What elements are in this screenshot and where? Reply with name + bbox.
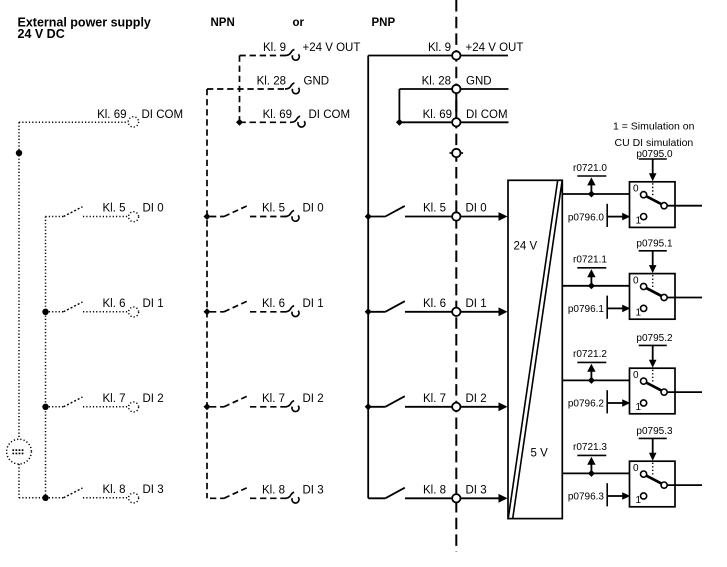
- wire: simulation output DI 1: [667, 297, 702, 299]
- label r0721.3: [573, 442, 607, 453]
- isolation diagonal line 2: [513, 180, 563, 518]
- wire: DI COM dotted to external supply: [19, 121, 128, 123]
- wire: NPN Kl.9 +24V OUT dashed: [240, 55, 286, 57]
- contact 1 DI 2: [641, 400, 647, 406]
- label Kl. 5 (external): [102, 203, 125, 215]
- label p0796.1: [568, 304, 605, 315]
- svg-text:or: or: [293, 17, 305, 29]
- isolator box 24V/5V: [508, 180, 562, 518]
- contact 0 DI 2: [641, 378, 647, 384]
- p0796.2 bar: [606, 390, 608, 413]
- wire: PNP Kl.69 DI COM: [399, 121, 452, 123]
- r0721.2 bar: [577, 361, 606, 363]
- label GND (NPN): [304, 76, 330, 88]
- p0795.3 input arrow: [649, 438, 657, 460]
- label Kl. 5 (PNP): [423, 203, 446, 215]
- label Kl. 8 (NPN): [262, 484, 285, 496]
- label DI COM (PNP): [466, 109, 508, 121]
- simulation switch box DI 1: [630, 274, 676, 320]
- label Kl. 7 (NPN): [262, 393, 285, 405]
- svg-text:GND: GND: [466, 76, 492, 88]
- svg-text:DI 0: DI 0: [466, 203, 487, 215]
- svg-text:DI 0: DI 0: [303, 203, 324, 215]
- label: NPN column header: [211, 17, 235, 29]
- junction: NPN +24V/DI COM: [236, 119, 243, 126]
- terminal Kl.5: [452, 212, 460, 220]
- terminal Kl.9: [452, 51, 460, 59]
- wire: PNP +24V rail vertical: [367, 56, 369, 499]
- contact Kl.8 NPN (socket): [285, 492, 299, 503]
- wire: external switch rail dotted: [45, 217, 47, 498]
- svg-text:0: 0: [633, 370, 639, 381]
- svg-text:Kl. 7: Kl. 7: [423, 393, 446, 405]
- contact Kl.28 NPN (socket): [285, 83, 299, 94]
- output pole DI 3: [661, 482, 667, 488]
- label Kl. 69 (external): [97, 109, 126, 121]
- contact Kl.69 external (dotted circle): [128, 117, 138, 127]
- label p0795.0: [636, 149, 673, 160]
- wire: isolator output DI 0: [562, 193, 629, 195]
- svg-text:NPN: NPN: [211, 17, 235, 29]
- label p0795.1: [636, 239, 673, 250]
- junction on supply vertical: [16, 150, 22, 156]
- svg-text:CU DI simulation: CU DI simulation: [615, 137, 694, 149]
- r0721.3 output arrow: [587, 457, 595, 474]
- svg-text:DI 0: DI 0: [143, 203, 164, 215]
- p0796.3 bar: [606, 483, 608, 506]
- label 0 (switch DI 2): [633, 370, 639, 381]
- PNP switch + wire DI 1 (Kl. 6): [365, 301, 452, 315]
- svg-text:r0721.2: r0721.2: [573, 349, 607, 360]
- contact 1 DI 3: [641, 493, 647, 499]
- svg-text:p0795.1: p0795.1: [636, 239, 673, 250]
- control unit boundary (dash line): [455, 0, 457, 552]
- external switch + wire DI 0 (Kl. 5): [46, 207, 128, 217]
- switch lever DI 1: [646, 288, 661, 296]
- svg-text:+24 V OUT: +24 V OUT: [466, 42, 524, 54]
- junction r0721.1 tap: [588, 282, 595, 289]
- contact Kl.7 external (dotted circle): [129, 402, 139, 412]
- svg-text:GND: GND: [304, 76, 330, 88]
- terminal M (unlabelled, with ticks): [450, 149, 464, 157]
- switch lever DI 0: [646, 196, 661, 204]
- simulation switch box DI 3: [630, 461, 676, 507]
- wire: simulation output DI 3: [667, 484, 702, 486]
- svg-text:DI COM: DI COM: [309, 109, 351, 121]
- label DI 0 (PNP): [466, 203, 487, 215]
- terminal Kl.8: [452, 494, 460, 502]
- wire: PNP GND to DI COM vertical: [398, 89, 400, 122]
- arrow into isolator DI 0: [499, 212, 508, 221]
- label Kl. 7 (PNP): [423, 393, 446, 405]
- label DI 1 (PNP): [466, 298, 487, 310]
- junction r0721.2 tap: [588, 377, 595, 384]
- p0795.3 bar: [639, 437, 667, 439]
- contact Kl.5 external (dotted circle): [129, 212, 139, 222]
- label Kl. 7 (external): [102, 393, 125, 405]
- contact 0 DI 3: [641, 471, 647, 477]
- arrow into isolator DI 1: [499, 307, 508, 316]
- svg-text:p0796.3: p0796.3: [568, 492, 605, 503]
- label Kl. 9 (NPN): [263, 42, 286, 54]
- svg-text:p0796.2: p0796.2: [568, 399, 605, 410]
- r0721.0 output arrow: [587, 177, 595, 194]
- label Kl. 8 (PNP): [423, 484, 446, 496]
- svg-text:p0795.3: p0795.3: [636, 426, 673, 437]
- svg-text:DI 3: DI 3: [303, 484, 324, 496]
- p0795.1 input arrow: [649, 251, 657, 273]
- label 5 V: [531, 447, 549, 459]
- wire: DI 1 into isolator: [461, 311, 500, 313]
- label p0796.3: [568, 492, 605, 503]
- svg-text:Kl. 5: Kl. 5: [262, 203, 285, 215]
- svg-text:5 V: 5 V: [531, 447, 549, 459]
- label DI 1 (external): [143, 298, 164, 310]
- label: External power supply heading line 1: [18, 16, 151, 30]
- wire: NPN GND rail vertical: [206, 89, 208, 498]
- label GND (PNP): [466, 76, 492, 88]
- dotted control line in box DI 3: [652, 463, 654, 475]
- svg-text:DI 1: DI 1: [303, 298, 324, 310]
- svg-text:r0721.0: r0721.0: [573, 163, 607, 174]
- p0795.0 bar: [639, 158, 667, 160]
- label DI 3 (PNP): [466, 484, 487, 496]
- label: PNP column header: [372, 17, 396, 29]
- contact Kl.9 NPN (socket): [285, 49, 299, 60]
- label Kl. 28 (NPN): [257, 76, 286, 88]
- svg-text:+24 V OUT: +24 V OUT: [303, 42, 361, 54]
- label DI 0 (external): [143, 203, 164, 215]
- svg-text:Kl. 7: Kl. 7: [262, 393, 285, 405]
- contact Kl.5 NPN (socket): [285, 210, 299, 221]
- PNP switch + wire DI 3 (Kl. 8): [368, 488, 452, 499]
- switch lever DI 3: [646, 476, 661, 484]
- label 1 (switch DI 0): [636, 216, 642, 227]
- junction r0721.0 tap: [588, 191, 595, 198]
- svg-text:Kl. 5: Kl. 5: [102, 203, 125, 215]
- label Kl. 69 (PNP): [423, 109, 452, 121]
- p0795.1 bar: [639, 250, 667, 252]
- svg-text:Kl. 69: Kl. 69: [97, 109, 126, 121]
- arrow into isolator DI 3: [499, 494, 508, 503]
- p0795.0 input arrow: [649, 159, 657, 181]
- dotted control line in box DI 1: [652, 275, 654, 287]
- svg-text:DI 3: DI 3: [143, 484, 164, 496]
- label DI 2 (external): [143, 393, 164, 405]
- r0721.3 bar: [577, 454, 606, 456]
- terminal Kl.69: [452, 118, 460, 126]
- external switch + wire DI 1 (Kl. 6): [42, 302, 128, 315]
- wire: isolator output DI 3: [562, 472, 629, 474]
- svg-text:DI 2: DI 2: [143, 393, 164, 405]
- wire: isolator output DI 1: [562, 285, 629, 287]
- NPN switch + wire DI 2 (Kl. 7): [204, 396, 288, 410]
- label: CU DI simulation: [615, 137, 694, 149]
- svg-text:p0796.0: p0796.0: [568, 212, 605, 223]
- r0721.2 output arrow: [587, 364, 595, 381]
- label p0795.3: [636, 426, 673, 437]
- PNP switch + wire DI 0 (Kl. 5): [365, 206, 452, 220]
- svg-text:0: 0: [633, 184, 639, 195]
- label: 1 = Simulation on: [613, 121, 695, 133]
- dotted control line in box DI 0: [652, 183, 654, 195]
- svg-text:r0721.3: r0721.3: [573, 442, 607, 453]
- p0796.1 bar: [606, 296, 608, 319]
- wire: DI 0 into isolator: [461, 216, 500, 218]
- label r0721.0: [573, 163, 607, 174]
- contact Kl.6 external (dotted circle): [129, 307, 139, 317]
- label DI 1 (NPN): [303, 298, 324, 310]
- label Kl. 8 (external): [102, 484, 125, 496]
- terminal Kl.7: [452, 403, 460, 411]
- wire: PNP Kl.9 right stub: [461, 55, 509, 57]
- label 0 (switch DI 3): [633, 463, 639, 474]
- svg-text:r0721.1: r0721.1: [573, 255, 607, 266]
- label 0 (switch DI 0): [633, 184, 639, 195]
- wire: PNP Kl.69 right stub: [461, 121, 509, 123]
- wire: simulation output DI 2: [667, 391, 702, 393]
- NPN switch + wire DI 3 (Kl. 8): [210, 488, 288, 499]
- label Kl. 6 (external): [102, 298, 125, 310]
- wire: DI 2 into isolator: [461, 406, 500, 408]
- terminal Kl.6: [452, 308, 460, 316]
- svg-text:p0795.2: p0795.2: [636, 333, 673, 344]
- p0796.0 arrow: [607, 213, 630, 221]
- label DI 2 (PNP): [466, 393, 487, 405]
- svg-text:DI 1: DI 1: [143, 298, 164, 310]
- contact Kl.8 external (dotted circle): [129, 493, 139, 503]
- terminal Kl.28: [452, 85, 460, 93]
- svg-text:p0796.1: p0796.1: [568, 304, 605, 315]
- svg-text:DI COM: DI COM: [466, 109, 508, 121]
- svg-text:Kl. 8: Kl. 8: [262, 484, 285, 496]
- svg-text:DI 1: DI 1: [466, 298, 487, 310]
- output pole DI 0: [661, 203, 667, 209]
- NPN switch + wire DI 0 (Kl. 5): [204, 206, 288, 220]
- label p0795.2: [636, 333, 673, 344]
- wire: external supply - vertical dotted: [18, 464, 20, 498]
- label +24 V OUT (PNP): [466, 42, 524, 54]
- svg-text:p0795.0: p0795.0: [636, 149, 673, 160]
- svg-text:Kl. 6: Kl. 6: [423, 298, 446, 310]
- svg-text:Kl. 28: Kl. 28: [422, 76, 451, 88]
- svg-text:DI 2: DI 2: [303, 393, 324, 405]
- label Kl. 6 (NPN): [262, 298, 285, 310]
- wire: NPN vertical +24V to DI COM: [239, 56, 241, 123]
- label Kl. 28 (PNP): [422, 76, 451, 88]
- wire: PNP Kl.28 GND: [399, 88, 452, 90]
- label DI 2 (NPN): [303, 393, 324, 405]
- wire: boundary segment Kl.28-Kl.69: [455, 92, 457, 119]
- dotted control line in box DI 2: [652, 370, 654, 382]
- svg-text:1: 1: [636, 307, 642, 318]
- contact 0 DI 1: [641, 283, 647, 289]
- r0721.0 bar: [577, 175, 606, 177]
- contact 1 DI 0: [641, 214, 647, 220]
- svg-text:Kl. 6: Kl. 6: [262, 298, 285, 310]
- svg-text:Kl. 9: Kl. 9: [263, 42, 286, 54]
- label DI 3 (external): [143, 484, 164, 496]
- contact Kl.6 NPN (socket): [285, 306, 299, 317]
- label: External power supply heading line 2: [18, 27, 65, 41]
- contact Kl.7 NPN (socket): [285, 401, 299, 412]
- label Kl. 5 (NPN): [262, 203, 285, 215]
- label +24 V OUT (NPN): [303, 42, 361, 54]
- simulation switch box DI 0: [630, 182, 676, 228]
- svg-text:Kl. 69: Kl. 69: [423, 109, 452, 121]
- label p0796.0: [568, 212, 605, 223]
- arrow into isolator DI 2: [499, 402, 508, 411]
- PNP switch + wire DI 2 (Kl. 7): [365, 396, 452, 410]
- label DI 0 (NPN): [303, 203, 324, 215]
- r0721.1 output arrow: [587, 269, 595, 286]
- svg-text:DI 2: DI 2: [466, 393, 487, 405]
- svg-text:24 V DC: 24 V DC: [18, 27, 65, 41]
- label 1 (switch DI 3): [636, 495, 642, 506]
- p0796.0 bar: [606, 204, 608, 227]
- junction r0721.3 tap: [588, 470, 595, 477]
- svg-text:Kl. 8: Kl. 8: [102, 484, 125, 496]
- label 1 (switch DI 1): [636, 307, 642, 318]
- r0721.1 bar: [577, 267, 606, 269]
- wire: isolator output DI 2: [562, 379, 629, 381]
- label p0796.2: [568, 399, 605, 410]
- wire: PNP Kl.9 +24V OUT: [368, 55, 452, 57]
- p0795.2 bar: [639, 344, 667, 346]
- svg-text:Kl. 5: Kl. 5: [423, 203, 446, 215]
- wire: NPN Kl.69 DI COM dashed: [240, 121, 292, 123]
- output pole DI 1: [661, 294, 667, 300]
- simulation switch box DI 2: [630, 368, 676, 414]
- svg-text:0: 0: [633, 463, 639, 474]
- label DI 3 (NPN): [303, 484, 324, 496]
- isolation diagonal line 1: [508, 180, 558, 518]
- label r0721.1: [573, 255, 607, 266]
- svg-text:1 = Simulation on: 1 = Simulation on: [613, 121, 695, 133]
- wire: simulation output DI 0: [667, 205, 702, 207]
- svg-text:0: 0: [633, 275, 639, 286]
- wire: PNP Kl.28 right stub: [461, 88, 509, 90]
- svg-text:Kl. 28: Kl. 28: [257, 76, 286, 88]
- source: external 24V supply (dotted circle): [7, 439, 32, 464]
- junction: PNP GND/DI COM: [396, 119, 403, 126]
- wire: supply bottom elbow: [19, 497, 46, 499]
- switch lever DI 2: [646, 383, 661, 391]
- output pole DI 2: [661, 389, 667, 395]
- svg-text:Kl. 6: Kl. 6: [102, 298, 125, 310]
- p0795.2 input arrow: [649, 345, 657, 367]
- external switch + wire DI 3 (Kl. 8): [42, 488, 128, 501]
- label 0 (switch DI 1): [633, 275, 639, 286]
- p0796.3 arrow: [607, 492, 630, 500]
- svg-text:1: 1: [636, 495, 642, 506]
- svg-text:1: 1: [636, 402, 642, 413]
- label 1 (switch DI 2): [636, 402, 642, 413]
- label r0721.2: [573, 349, 607, 360]
- label DI COM (NPN): [309, 109, 351, 121]
- svg-text:DI COM: DI COM: [142, 109, 184, 121]
- wire: external supply + vertical dotted: [18, 122, 20, 439]
- contact 0 DI 0: [641, 192, 647, 198]
- label 24 V: [514, 241, 538, 253]
- svg-text:24 V: 24 V: [514, 241, 538, 253]
- label Kl. 69 (NPN): [263, 109, 292, 121]
- wire: DI 3 into isolator: [461, 497, 500, 499]
- contact Kl.69 NPN (socket): [291, 116, 305, 127]
- svg-text:PNP: PNP: [372, 17, 396, 29]
- svg-text:Kl. 9: Kl. 9: [428, 42, 451, 54]
- NPN switch + wire DI 1 (Kl. 6): [204, 301, 288, 315]
- svg-text:1: 1: [636, 216, 642, 227]
- wire: NPN Kl.28 GND dashed: [207, 88, 286, 90]
- svg-text:Kl. 8: Kl. 8: [423, 484, 446, 496]
- contact 1 DI 1: [641, 305, 647, 311]
- svg-text:Kl. 7: Kl. 7: [102, 393, 125, 405]
- label DI COM (external): [142, 109, 184, 121]
- label Kl. 9 (PNP): [428, 42, 451, 54]
- label: or: [293, 17, 305, 29]
- svg-text:DI 3: DI 3: [466, 484, 487, 496]
- external switch + wire DI 2 (Kl. 7): [42, 397, 128, 410]
- p0796.1 arrow: [607, 305, 630, 313]
- svg-text:Kl. 69: Kl. 69: [263, 109, 292, 121]
- label Kl. 6 (PNP): [423, 298, 446, 310]
- p0796.2 arrow: [607, 399, 630, 407]
